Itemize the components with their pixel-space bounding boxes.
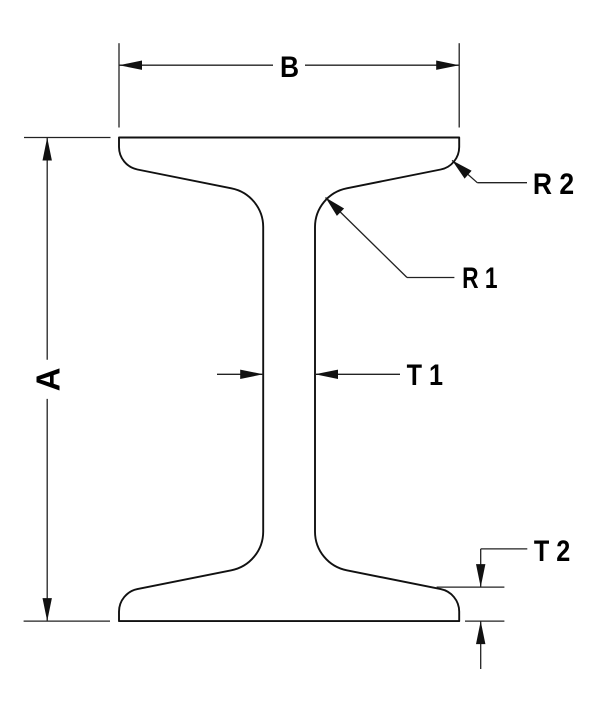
dimension T1 line right arrow [315,373,400,375]
dimension T1 line left arrow [217,373,263,375]
svg-text:B: B [280,49,299,83]
I-beam cross-section outline [119,138,459,622]
dimension A extension line bottom [24,620,110,622]
dimension T2 extension line upper [437,586,505,588]
svg-text:T 1: T 1 [407,358,443,392]
dimension A extension line top [24,137,111,139]
svg-text:R 2: R 2 [533,168,574,202]
leader R1 [326,198,408,278]
svg-text:R 1: R 1 [462,261,498,295]
dimension B extension line right [458,43,460,127]
leader R2 [452,160,477,182]
dimension B extension line left [118,43,120,127]
svg-text:A: A [30,367,67,391]
svg-text:T 2: T 2 [534,534,570,568]
dimension T2 arrows [480,549,482,587]
dimension A line with arrows [46,138,48,360]
label T2 leader [481,548,528,550]
dimension B line with arrows [119,64,273,66]
dimension T2 extension line lower [465,620,504,622]
